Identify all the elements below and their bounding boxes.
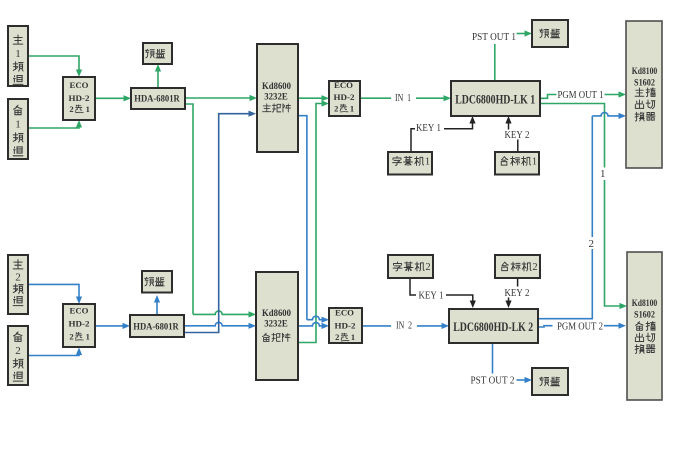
svg-text:1: 1	[86, 104, 90, 114]
svg-text:Kd8100: Kd8100	[632, 299, 658, 309]
node D1: HDA-6801R distribution amp 1	[131, 88, 185, 109]
svg-text:PST OUT 1: PST OUT 1	[472, 32, 516, 43]
svg-text:1: 1	[15, 119, 21, 131]
svg-text:2: 2	[532, 262, 537, 273]
wire: HDA2 out2 up to main matrix	[184, 114, 250, 333]
wire: LDC2 out2 up to main switcher K1	[538, 112, 620, 318]
node D2: HDA-6801R distribution amp 2	[130, 315, 184, 337]
svg-text:3232E: 3232E	[264, 92, 288, 102]
wire: main1 channel to ECO1 selector	[28, 56, 79, 73]
svg-text:KEY 2: KEY 2	[505, 288, 530, 299]
svg-text:KEY 1: KEY 1	[416, 123, 441, 134]
wire: backup1 channel to ECO1 selector	[28, 125, 79, 129]
svg-text:1: 1	[350, 103, 354, 113]
svg-text:1: 1	[600, 168, 606, 180]
node I1: subtitle machine 1	[388, 152, 432, 175]
svg-text:HD-2: HD-2	[69, 318, 90, 328]
wire: ECO1 to HDA-6801R #1	[95, 97, 125, 99]
svg-text:2: 2	[15, 345, 21, 357]
wire: main2 channel to ECO2 selector	[28, 284, 79, 299]
wire: HDA2 to preview monitor C2	[156, 301, 158, 316]
wire: LDC1 PGM OUT 1 to main switcher K1	[540, 95, 620, 99]
wire: LDC1 PST OUT 1 to preview H1	[494, 44, 496, 81]
svg-text:IN 1: IN 1	[395, 93, 411, 104]
node A1: main channel 1 source box	[8, 26, 28, 86]
svg-text:2: 2	[334, 103, 338, 113]
svg-text:1: 1	[351, 332, 355, 342]
svg-text:S1602: S1602	[634, 79, 655, 89]
wire: ECO F2 to LDC2, IN 2	[362, 325, 444, 327]
wire: main matrix out2 down to ECO F2	[298, 116, 324, 320]
svg-text:HDA-6801R: HDA-6801R	[133, 322, 179, 332]
node B2: ECO HD-2 2-to-1 selector (input 2)	[63, 304, 95, 347]
node J2: logo machine 2	[495, 255, 540, 278]
svg-text:PGM OUT 2: PGM OUT 2	[557, 321, 603, 332]
svg-text:PGM OUT 1: PGM OUT 1	[558, 90, 604, 101]
wire: HDA1 out1 to main matrix	[185, 97, 251, 99]
node G2: LDC6800HD-LK 2 master control switcher	[449, 309, 538, 343]
svg-text:PST OUT 2: PST OUT 2	[471, 376, 515, 387]
wire: HDA1 out2 down to backup matrix	[185, 104, 250, 314]
svg-text:2: 2	[69, 104, 73, 114]
wire: ECO2 to HDA-6801R #2	[95, 325, 124, 327]
svg-text:LDC6800HD-LK 1: LDC6800HD-LK 1	[455, 92, 535, 106]
svg-text:KEY 2: KEY 2	[505, 130, 530, 141]
svg-text:S1602: S1602	[634, 311, 655, 321]
svg-text:1: 1	[532, 157, 537, 168]
wire: KEY 2 from logo1 to LDC1	[517, 140, 519, 153]
node E1: Kd8600 3232E main matrix	[257, 44, 298, 152]
node B1: ECO HD-2 2-to-1 selector (input 1)	[63, 77, 95, 120]
node G1: LDC6800HD-LK 1 master control switcher	[451, 81, 540, 116]
node J1: logo machine 1	[495, 152, 539, 175]
node F1: ECO HD-2 selector after main matrix	[329, 81, 360, 116]
wire: LDC2 PST OUT 2 to preview H2	[492, 343, 494, 374]
node A4: backup channel 2 source box	[8, 326, 28, 385]
svg-text:ECO: ECO	[334, 80, 353, 90]
svg-text:Kd8600: Kd8600	[262, 308, 291, 318]
node F2: ECO HD-2 selector after backup matrix	[329, 308, 362, 343]
wire: KEY 2 from logo2 to LDC2	[517, 278, 519, 287]
svg-text:ECO: ECO	[335, 308, 354, 318]
svg-text:ECO: ECO	[70, 80, 89, 90]
wire: HDA1 to preview monitor C1	[157, 70, 159, 89]
svg-text:2: 2	[15, 271, 21, 283]
wire: LDC2 PGM OUT 2 to backup switcher K2	[538, 326, 620, 327]
node H1: preview monitor for PST OUT 1	[532, 20, 568, 47]
svg-text:1: 1	[15, 48, 21, 60]
svg-text:KEY 1: KEY 1	[419, 291, 444, 302]
svg-text:Kd8100: Kd8100	[632, 67, 658, 77]
svg-text:2: 2	[335, 332, 339, 342]
svg-text:HD-2: HD-2	[335, 320, 356, 330]
svg-text:HD-2: HD-2	[334, 92, 355, 102]
svg-text:ECO: ECO	[70, 305, 89, 315]
wire: LDC1 out2 down to backup switcher K2	[540, 104, 621, 307]
node K1: Kd8100 S1602 main broadcast output switcher	[626, 21, 662, 168]
wire: ECO F1 to LDC1, IN 1	[360, 97, 446, 99]
svg-text:Kd8600: Kd8600	[262, 81, 291, 91]
node C1: preview monitor 1	[143, 43, 172, 64]
svg-text:2: 2	[589, 238, 595, 250]
node K2: Kd8100 S1602 backup broadcast output switcher	[627, 252, 662, 400]
wire: backup matrix out1 to ECO F2	[298, 322, 324, 325]
svg-text:3232E: 3232E	[264, 319, 288, 329]
wire: HDA2 out1 to backup matrix	[184, 322, 250, 325]
node E2: Kd8600 3232E backup matrix	[256, 272, 298, 380]
node C2: preview monitor 2	[142, 271, 172, 293]
node H2: preview monitor for PST OUT 2	[532, 368, 568, 395]
wire: main matrix out1 to ECO F1	[298, 97, 324, 99]
node A2: backup channel 1 source box	[8, 99, 28, 159]
wire: backup matrix out2 up to ECO F1	[298, 104, 324, 343]
svg-text:2: 2	[425, 262, 430, 273]
svg-text:2: 2	[69, 332, 73, 342]
node A3: main channel 2 source box	[8, 255, 28, 314]
svg-text:HDA-6801R: HDA-6801R	[134, 94, 180, 104]
wire: KEY 1 from subtitle1 to LDC1	[411, 124, 473, 153]
svg-text:IN 2: IN 2	[396, 321, 412, 332]
svg-text:1: 1	[86, 332, 90, 342]
svg-text:LDC6800HD-LK 2: LDC6800HD-LK 2	[453, 320, 533, 334]
svg-text:1: 1	[425, 157, 430, 168]
wire: KEY 1 from subtitle2 to LDC2	[410, 278, 473, 301]
svg-text:HD-2: HD-2	[69, 93, 90, 103]
wire: backup2 channel to ECO2 selector	[28, 352, 79, 356]
node I2: subtitle machine 2	[388, 255, 433, 278]
